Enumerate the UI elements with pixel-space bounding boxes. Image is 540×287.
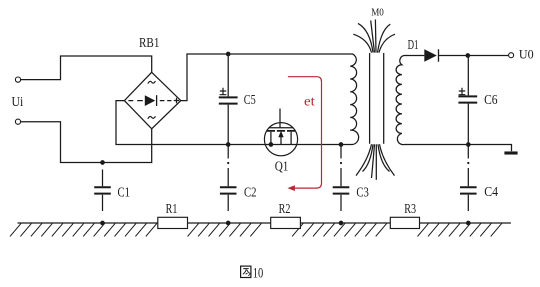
svg-text:Q1: Q1	[275, 158, 289, 173]
svg-text:10: 10	[253, 266, 264, 282]
svg-text:C4: C4	[484, 184, 498, 199]
svg-text:RB1: RB1	[139, 35, 159, 50]
svg-text:C1: C1	[118, 185, 131, 200]
svg-text:U0: U0	[519, 48, 534, 62]
svg-text:et: et	[304, 94, 315, 109]
svg-text:R3: R3	[404, 201, 416, 216]
svg-text:C6: C6	[484, 92, 498, 107]
svg-text:C5: C5	[244, 92, 256, 107]
svg-text:R1: R1	[166, 201, 178, 216]
svg-text:C2: C2	[244, 185, 257, 200]
svg-text:Ui: Ui	[12, 94, 24, 109]
svg-text:M0: M0	[371, 7, 384, 18]
svg-text:R2: R2	[279, 201, 291, 216]
svg-text:C3: C3	[356, 185, 369, 200]
svg-text:D1: D1	[408, 37, 419, 52]
